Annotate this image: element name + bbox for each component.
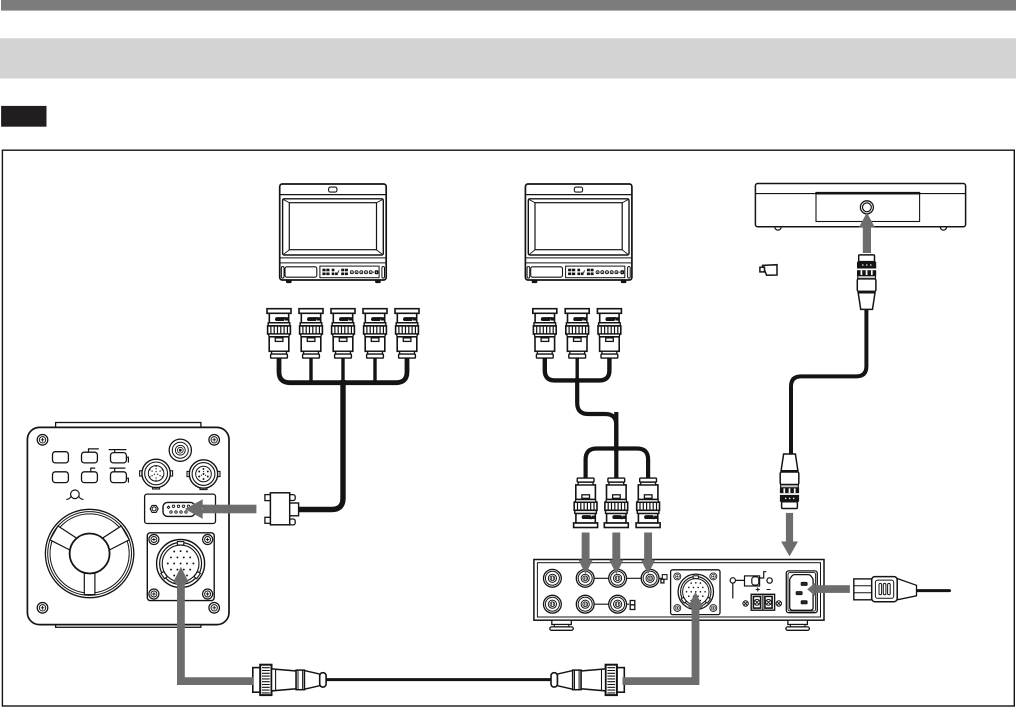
camera CCZ connector bbox=[157, 540, 205, 588]
CCU BNC jack bottom2 bbox=[576, 595, 594, 613]
monitor 2 side posts bbox=[527, 267, 530, 279]
camera link cable left connector bbox=[253, 665, 326, 695]
BNC plug m1-3 bbox=[331, 309, 355, 358]
CCU foot right bbox=[786, 620, 810, 630]
monitor 1 BNC harness bus bbox=[279, 356, 407, 383]
camera fan bbox=[45, 509, 133, 597]
BNC plug m1-5 bbox=[395, 309, 419, 358]
camera corner screw BL bbox=[37, 603, 48, 614]
DC IN terminal screws bbox=[754, 599, 771, 605]
camera body bbox=[27, 427, 229, 624]
monitor 1 body bbox=[280, 184, 387, 280]
camera button row1 col1 bbox=[53, 452, 69, 463]
monitor 1 knobs bbox=[350, 271, 372, 274]
CCU BNC jack top1 bbox=[544, 569, 562, 587]
arrow into CCU camera connector bbox=[687, 592, 703, 608]
monitor 1 control cluster bbox=[320, 266, 379, 278]
camera corner screw BR bbox=[209, 603, 220, 614]
monitor 1 buttons bbox=[322, 269, 348, 275]
monitor 2 power switch bbox=[619, 271, 620, 273]
VCR front panel bbox=[816, 193, 920, 222]
camera panel screw BR bbox=[203, 589, 213, 599]
CCU jack link lines bbox=[594, 578, 662, 604]
BNC plug m1-2 bbox=[299, 309, 323, 358]
CCU panel screw TR bbox=[710, 573, 717, 580]
diagram frame bbox=[2, 150, 1014, 706]
camera button row1 col3 with tabs bbox=[109, 450, 129, 463]
CCU panel screw BR bbox=[710, 605, 717, 612]
CCU ground terminal bbox=[730, 578, 735, 583]
AC inlet pin slots bbox=[801, 582, 807, 585]
BNC plug m2-3 bbox=[597, 309, 621, 358]
arrow CCU BNC 1 bbox=[582, 533, 590, 561]
monitor 2 knobs bbox=[596, 271, 618, 274]
DC IN plus minus marks bbox=[756, 588, 771, 592]
camera panel screw TL bbox=[149, 535, 159, 545]
CCU clamp wire bbox=[736, 572, 767, 581]
monitor 2 bezel bbox=[528, 199, 629, 255]
camera D-sub left jackscrew bbox=[150, 505, 158, 512]
camera RGB D-sub panel bbox=[145, 494, 216, 523]
camera rear panel bbox=[27, 423, 229, 628]
CCU clamp screw bbox=[767, 578, 772, 583]
CCU cable clamp bbox=[745, 576, 760, 586]
arrow into camera CCZ connector bbox=[173, 567, 189, 583]
camera button row2 col1 bbox=[53, 472, 69, 483]
CCU monitor icon top bbox=[662, 575, 667, 580]
arrow into AC inlet bbox=[816, 585, 850, 593]
camera button row2 col2 with tab bbox=[91, 468, 95, 472]
camera top plate edge bbox=[56, 423, 201, 430]
CCU foot left bbox=[550, 620, 574, 630]
monitor 1 handle bbox=[329, 187, 337, 192]
wire monitor1 harness to RGB plug bbox=[341, 356, 344, 383]
camera panel screw BL bbox=[149, 589, 159, 599]
VCR foot right bbox=[940, 227, 946, 230]
monitor 2 speaker door bbox=[531, 267, 563, 277]
camera button row1 col2 with tab bbox=[89, 449, 99, 452]
DC IN side screw left bbox=[743, 601, 748, 606]
arrow CCU BNC 2 bbox=[612, 533, 620, 561]
monitor 2 screen bbox=[535, 203, 622, 250]
camera panel screw TR bbox=[203, 535, 213, 545]
monitor 2 body bbox=[525, 184, 632, 280]
DC IN terminal block bbox=[751, 594, 774, 610]
DC IN side screw right bbox=[776, 601, 781, 606]
CCU camera control unit bbox=[534, 560, 824, 631]
monitor 1 bezel corner lines bbox=[284, 200, 383, 255]
camera bottom plate edge bbox=[56, 620, 201, 627]
VCR cable connector bbox=[857, 255, 876, 310]
arrow DC plug down bbox=[786, 513, 793, 542]
monitor 1 feet bbox=[286, 280, 381, 283]
camera corner screw TL bbox=[37, 435, 48, 446]
light gray band bbox=[0, 38, 1016, 78]
camera corner screw TR bbox=[209, 435, 220, 446]
camera D-sub right jackscrew bbox=[201, 505, 209, 512]
wire monitor2 harness S-bend bbox=[577, 378, 616, 452]
video monitor 2 bbox=[525, 184, 632, 283]
RGB D-sub cable plug bbox=[265, 493, 299, 525]
monitor 2 BNC center lead bbox=[576, 356, 579, 381]
camera 12-pin connector bbox=[140, 459, 173, 489]
CCU body inner line bbox=[537, 563, 820, 617]
monitor 2 feet bbox=[532, 280, 627, 283]
VCR connector socket bbox=[860, 201, 873, 214]
BNC plug m2-2 bbox=[565, 309, 589, 358]
arrow CCU BNC 3 bbox=[644, 533, 652, 561]
black section label box bbox=[1, 106, 46, 127]
monitor 1 bezel bbox=[283, 199, 384, 255]
monitor 1 power switch bbox=[373, 271, 374, 273]
CCU panel screw BL bbox=[674, 605, 681, 612]
CCU camera connector panel bbox=[671, 570, 720, 615]
monitor 2 slash mark bbox=[584, 271, 585, 274]
monitor 2 lower trim lines bbox=[526, 258, 631, 263]
VCR foot left bbox=[775, 227, 781, 230]
monitor 1 lower trim lines bbox=[280, 258, 385, 263]
BNC plug ccu-2 (down) bbox=[604, 478, 628, 527]
BNC plug ccu-3 (down) bbox=[636, 478, 660, 527]
small camera icon near VCR bbox=[763, 265, 777, 276]
camera iris icon bbox=[71, 490, 80, 499]
arrow into camera RGB port bbox=[203, 505, 257, 514]
top header bar bbox=[1, 0, 1016, 11]
monitor 2 BNC harness bus bbox=[545, 356, 610, 381]
monitor 1 slash mark bbox=[338, 271, 339, 274]
wire VCR to DC plug bbox=[791, 307, 866, 455]
video monitor 1 bbox=[280, 184, 387, 283]
CCU BNC jack top3 bbox=[609, 569, 627, 587]
VCR / video recorder bbox=[755, 184, 965, 231]
arrow into VCR socket bbox=[863, 227, 871, 253]
camera genlock connector bbox=[169, 439, 191, 461]
CCU body outer bbox=[534, 560, 824, 621]
gray cable camera side bbox=[181, 583, 253, 682]
monitor 2 buttons bbox=[568, 269, 594, 275]
camera link cable right connector bbox=[551, 665, 624, 695]
VCR top seam bbox=[756, 193, 965, 195]
monitor 1 top seam bbox=[280, 194, 385, 196]
monitor 2 handle bbox=[574, 187, 582, 192]
monitor 1 speaker door bbox=[285, 267, 317, 277]
CCU BNC jack top4 bbox=[641, 569, 659, 587]
monitor 2 bezel corner lines bbox=[529, 200, 628, 255]
AC power plug C13 bbox=[854, 577, 917, 602]
CCU terminator icon bottom bbox=[630, 601, 635, 605]
DC cable connector (down) bbox=[780, 454, 799, 509]
BNC plug m1-1 bbox=[267, 309, 291, 358]
CCU panel screw TL bbox=[674, 573, 681, 580]
AC inlet socket bbox=[790, 575, 813, 611]
CCU camera connector bbox=[678, 574, 713, 609]
AC inlet panel bbox=[786, 571, 817, 613]
CCU BNC jack bottom3 bbox=[609, 595, 627, 613]
wire camera link cable bbox=[325, 678, 553, 681]
monitor 2 control cluster bbox=[566, 266, 625, 278]
VCR body bbox=[755, 184, 965, 227]
camera button row2 col3 with tabs bbox=[110, 468, 129, 483]
camera cable connector panel bbox=[147, 533, 214, 601]
camera D-sub socket bbox=[163, 502, 195, 516]
VCR front panel top edge bbox=[815, 192, 920, 195]
CCU BNC jack top2 bbox=[576, 569, 594, 587]
monitor 2 top seam bbox=[526, 194, 631, 196]
BNC plug ccu-1 (down) bbox=[574, 478, 598, 527]
wire CCU BNC splitter bbox=[586, 449, 649, 480]
monitor 1 side posts bbox=[281, 267, 284, 279]
BNC plug m2-1 bbox=[533, 309, 557, 358]
camera remote connector bbox=[187, 460, 220, 490]
gray cable CCU side bbox=[623, 608, 696, 681]
monitor 1 BNC leads bbox=[311, 356, 375, 383]
BNC plug m1-4 bbox=[363, 309, 387, 358]
monitor 1 screen bbox=[289, 203, 376, 250]
power cord wire bbox=[917, 589, 950, 592]
CCU BNC jack bottom1 bbox=[544, 595, 562, 613]
